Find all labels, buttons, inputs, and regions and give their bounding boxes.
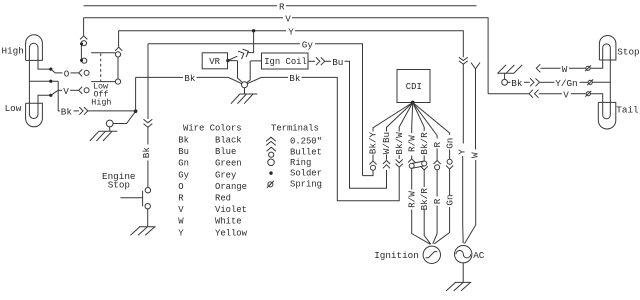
dimmer switch blade left <box>80 44 82 61</box>
svg-text:Gn: Gn <box>444 194 455 205</box>
wire CDI fan Gn <box>413 103 450 160</box>
svg-text:Bu: Bu <box>178 147 189 157</box>
svg-text:Bk: Bk <box>61 107 73 118</box>
wire CDI fan R/W <box>412 103 413 159</box>
wire CDI fan Bk/W <box>399 103 413 160</box>
svg-text:Stop: Stop <box>617 46 639 57</box>
connector bullet dimmer left top <box>80 36 87 46</box>
svg-text:Gy: Gy <box>302 40 314 51</box>
wire Bk row to connector <box>74 110 80 112</box>
engine stop switch <box>121 188 151 209</box>
connector 0.250 V row <box>529 90 539 98</box>
svg-text:Yellow: Yellow <box>215 228 248 238</box>
headlamp High beam lamp <box>26 35 43 61</box>
svg-text:Bk/R: Bk/R <box>419 132 430 155</box>
svg-text:Bk: Bk <box>141 147 152 159</box>
svg-text:Bullet: Bullet <box>290 147 322 157</box>
svg-text:Spring: Spring <box>290 179 322 189</box>
connector 0.250 pair at VR (diagonal) <box>238 47 250 59</box>
wire Bk to connector <box>524 81 530 83</box>
svg-text:Y/Gn: Y/Gn <box>555 78 577 89</box>
wire Low filament to V node <box>38 95 51 103</box>
wire V row right <box>488 93 529 95</box>
label Engine Stop <box>102 171 135 190</box>
wire O row to connector <box>71 72 79 74</box>
wire spring to tail vertical <box>592 81 610 83</box>
svg-text:Bk: Bk <box>178 136 189 146</box>
node blade dot top <box>80 42 83 45</box>
connector bullet O row <box>79 69 89 76</box>
wire Y/Gn to spring <box>580 81 589 83</box>
svg-text:Gn: Gn <box>444 138 455 149</box>
svg-text:Ignition: Ignition <box>374 250 419 261</box>
svg-text:Bu: Bu <box>332 57 343 68</box>
svg-text:Y: Y <box>178 228 184 238</box>
node O row bend dot <box>49 68 52 71</box>
wire Ign Coil output <box>308 60 315 62</box>
wire Ign Coil to ring junction <box>247 61 262 83</box>
svg-text:Violet: Violet <box>215 205 247 215</box>
svg-text:Bk: Bk <box>289 73 301 84</box>
node Y-VR junction <box>252 29 255 32</box>
svg-text:Bk/W: Bk/W <box>394 132 405 155</box>
wire W drop fork <box>465 63 481 244</box>
connector bullet R/W with housing <box>408 159 427 169</box>
wire R to ignition <box>433 170 437 244</box>
legend Wire Colors <box>178 124 247 239</box>
wire ground to ring right <box>504 73 506 79</box>
wire VR to ring junction <box>228 61 243 83</box>
ground engine stop <box>130 227 155 236</box>
connector 0.250 Bk row <box>79 107 88 115</box>
wire Bk bus right to wrap <box>302 77 400 200</box>
wire Bk junction up to Bk bus <box>135 77 137 111</box>
wire to Y/Gn label <box>540 81 555 83</box>
wire Bk row start <box>58 110 60 112</box>
node Bk junction dot <box>134 109 138 113</box>
wire spring to tail lamp leg <box>590 94 602 103</box>
svg-text:Blue: Blue <box>215 147 236 157</box>
svg-text:R/W: R/W <box>406 135 417 152</box>
svg-text:R: R <box>432 198 443 204</box>
wire Gn to ignition <box>434 169 449 244</box>
ground below VR junction <box>231 94 257 104</box>
ground right side <box>497 65 522 73</box>
terminal spring V <box>585 91 591 97</box>
connector 0.250 Y drop <box>459 57 468 64</box>
ignition source <box>423 246 440 263</box>
svg-text:W: W <box>178 217 184 227</box>
wire W row to spring <box>569 67 586 69</box>
ignition coil box <box>262 53 309 69</box>
svg-text:Gn: Gn <box>178 159 189 169</box>
wire Gy wrap to Bk/Y connector <box>363 170 374 175</box>
terminal ring VR ground junction <box>242 82 248 88</box>
svg-text:V: V <box>178 205 184 215</box>
svg-text:R: R <box>279 2 285 13</box>
svg-text:Red: Red <box>215 194 231 204</box>
svg-text:O: O <box>64 69 70 80</box>
connector 0.250 Bk/W <box>396 159 403 167</box>
wire R/W to ignition <box>412 168 431 244</box>
svg-text:Orange: Orange <box>215 182 247 192</box>
svg-text:Green: Green <box>215 159 242 169</box>
dimmer right lower contact <box>115 79 120 84</box>
svg-text:Grey: Grey <box>215 170 237 180</box>
wire stop to tail vertical <box>609 60 611 102</box>
svg-text:Bk/R: Bk/R <box>419 188 430 211</box>
ground below AC <box>446 282 471 291</box>
svg-text:V: V <box>285 14 291 25</box>
svg-text:V: V <box>63 86 69 97</box>
wire CDI fan Bk/Y <box>373 103 413 161</box>
wire Y to dimmer right column <box>118 31 120 47</box>
wire W row chevron <box>536 64 540 72</box>
wire diagonal Low filament to V node <box>51 90 58 95</box>
ground near dimmer <box>90 131 117 141</box>
connector bullet Bk/Y <box>369 161 376 170</box>
terminal spring W <box>585 65 591 71</box>
wire engine stop drop from Gy <box>147 44 149 119</box>
svg-text:Solder: Solder <box>290 169 322 179</box>
svg-text:Y: Y <box>457 149 468 155</box>
wire switch to ground <box>147 209 149 227</box>
wire dimmer right column vertical <box>117 57 119 79</box>
wire Bk/R to ignition <box>424 170 431 244</box>
label Low Off High <box>91 82 111 108</box>
wire R top bus <box>84 5 477 7</box>
AC source <box>455 246 472 263</box>
svg-text:V: V <box>563 90 569 101</box>
terminal spring Y/Gn <box>587 79 593 85</box>
wire common tap to V/Bk node <box>29 80 58 82</box>
wire Bk bus right segment <box>247 77 288 83</box>
wire Bk junction to ring terminal <box>113 111 135 123</box>
terminal ring right <box>502 79 508 85</box>
wire node vertical to Bk row <box>57 81 59 111</box>
wire W row left <box>541 67 561 69</box>
wire Y top bus <box>119 31 464 58</box>
connector 0.250 engine stop <box>144 119 153 127</box>
wire Y junction to VR connector <box>248 31 254 53</box>
wire Bk row to junction <box>88 110 136 112</box>
wire AC to ground <box>462 263 464 283</box>
svg-text:White: White <box>215 217 242 227</box>
svg-text:Black: Black <box>215 136 242 146</box>
svg-text:0.250": 0.250" <box>290 137 322 147</box>
svg-text:Terminals: Terminals <box>271 124 319 134</box>
wire Y drop <box>462 64 465 243</box>
connector bullet dimmer right <box>115 47 122 57</box>
svg-text:W/Bu: W/Bu <box>381 132 392 154</box>
connector 0.250 Y/Gn row <box>530 78 540 86</box>
node Low filament dot <box>49 94 52 97</box>
svg-text:AC: AC <box>473 250 485 261</box>
dimmer blade lower right <box>91 81 115 83</box>
regulator VR box <box>202 53 227 69</box>
svg-text:Ring: Ring <box>290 158 311 168</box>
svg-text:Bk/Y: Bk/Y <box>368 131 379 154</box>
connector 0.250 Ign Coil <box>316 57 325 65</box>
wire Bk bus to ring <box>197 77 242 83</box>
dimmer switch left column feed from V <box>83 18 85 36</box>
wire ring to Bk label <box>508 81 511 83</box>
wire VR to connector diagonal <box>228 53 248 61</box>
wire High filament to O row <box>38 60 51 69</box>
svg-text:W: W <box>470 152 481 158</box>
svg-text:W: W <box>562 64 568 75</box>
wire V row to connector <box>70 89 79 91</box>
wire V row middle <box>539 93 562 95</box>
svg-text:Low: Low <box>5 103 22 114</box>
dimmer blade upper right <box>91 52 115 54</box>
wire CDI fan R <box>413 103 437 161</box>
node blade dot bottom <box>80 59 83 62</box>
wire CDI fan W/Bu <box>387 103 413 160</box>
terminal ring near dimmer <box>106 120 113 127</box>
svg-text:High: High <box>91 97 111 107</box>
wire O row diagonal <box>51 69 63 73</box>
wire headlamp common vertical <box>28 60 30 103</box>
svg-text:R: R <box>432 142 443 148</box>
svg-text:High: High <box>2 45 24 56</box>
svg-text:Gy: Gy <box>178 170 189 180</box>
node common tap dot <box>49 80 52 83</box>
wire V row to spring <box>571 93 586 95</box>
svg-text:CDI: CDI <box>406 82 422 92</box>
wire CDI fan Bk/R <box>413 103 425 162</box>
svg-text:Tail: Tail <box>616 105 639 116</box>
svg-text:R/W: R/W <box>406 191 417 208</box>
svg-text:R: R <box>178 194 184 204</box>
node VR terminal dot <box>226 59 229 62</box>
headlamp Low beam lamp <box>26 103 43 127</box>
stop lamp <box>599 35 616 60</box>
node CDI output dot <box>411 101 415 105</box>
dimmer switch left contacts <box>82 58 87 63</box>
connector bullet R <box>434 160 441 169</box>
wire ring to ground <box>244 88 246 94</box>
wire Bk bus left segment <box>136 76 183 78</box>
svg-text:O: O <box>178 182 183 192</box>
legend Terminals <box>266 124 322 190</box>
svg-text:Y: Y <box>288 27 294 38</box>
wire spring to stop lamp leg <box>590 60 603 68</box>
dimmer mechanical link dashed <box>100 54 102 82</box>
svg-text:VR: VR <box>209 57 220 67</box>
svg-text:Stop: Stop <box>108 179 130 190</box>
wire V top bus <box>84 18 489 94</box>
wire Bu wrap to W/Bu connector <box>345 61 387 188</box>
connector 0.250 W/Bu <box>383 160 390 168</box>
svg-text:Bk: Bk <box>511 78 523 89</box>
tail lamp <box>598 102 616 129</box>
svg-text:Bk: Bk <box>184 73 196 84</box>
CDI box <box>397 70 430 103</box>
svg-text:Wire Colors: Wire Colors <box>183 124 242 134</box>
connector chevron below Bk/R <box>421 166 428 170</box>
wire ring to ground <box>109 127 111 131</box>
wire Gy <box>148 44 362 176</box>
wire connector to label <box>147 127 149 144</box>
svg-text:Ign Coil: Ign Coil <box>264 57 307 67</box>
wire V row from node <box>58 89 62 91</box>
wire Bk/W below connector <box>398 168 400 173</box>
wire to Bu label <box>325 60 331 62</box>
connector bullet V row <box>79 87 89 94</box>
connector bullet Gn <box>446 159 453 169</box>
wire label to switch <box>147 161 149 188</box>
